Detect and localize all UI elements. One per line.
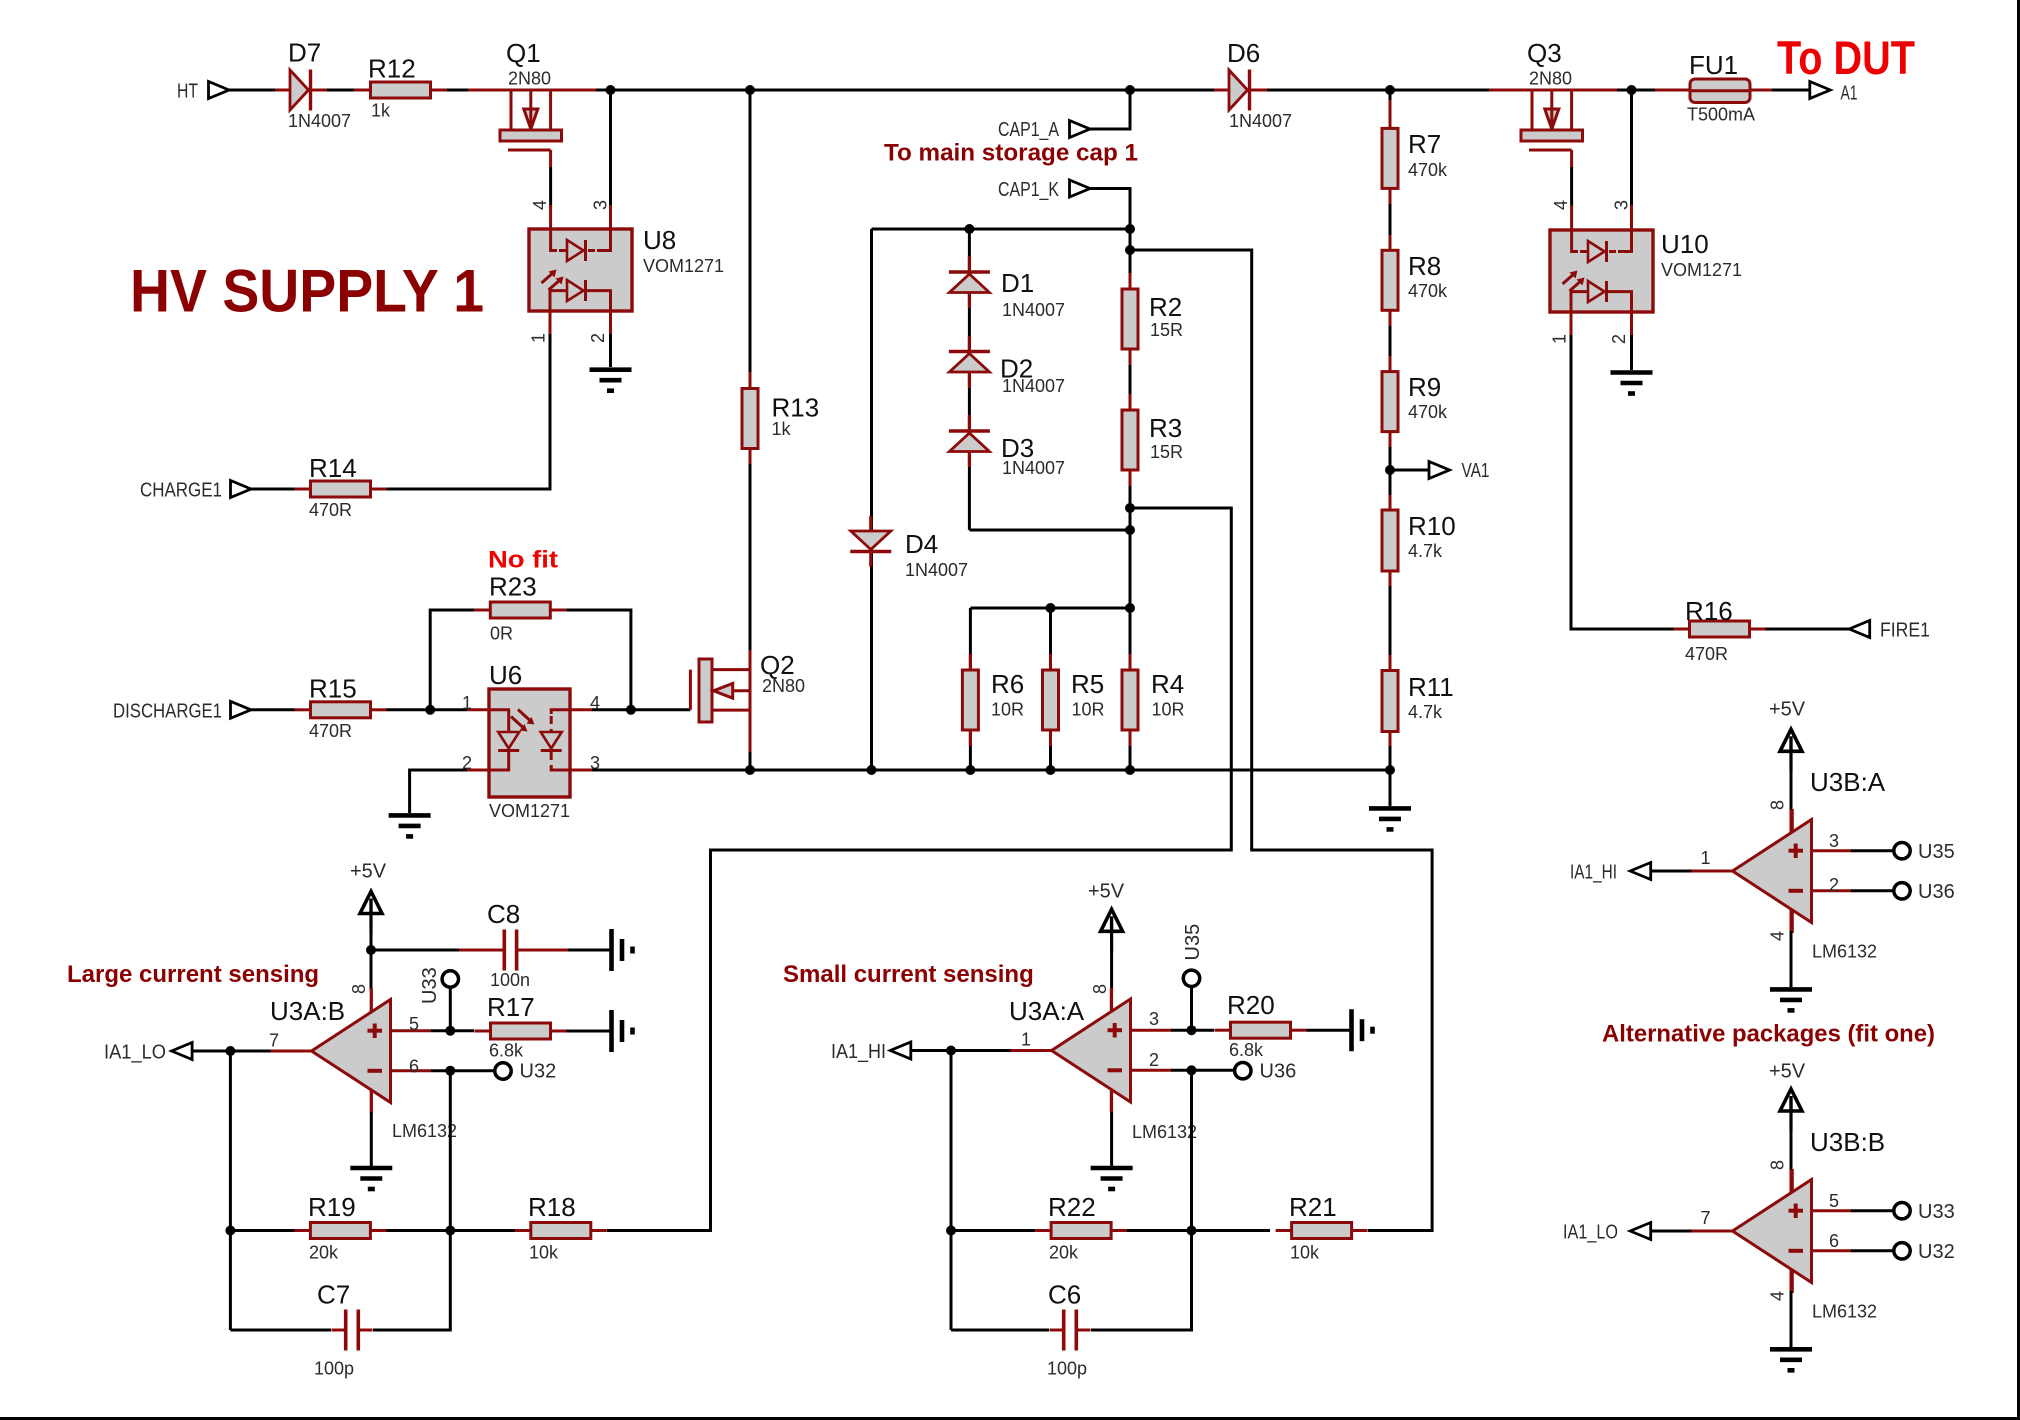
node junction output/feedback bbox=[225, 1046, 235, 1056]
diode D7 1N4007 bbox=[276, 70, 326, 111]
wire CAP1_A to bus bbox=[1090, 90, 1130, 129]
svg-text:IA1_HI: IA1_HI bbox=[831, 1041, 886, 1063]
wire R2/R3 column bbox=[1129, 229, 1132, 608]
svg-text:R10: R10 bbox=[1408, 511, 1456, 541]
svg-text:+5V: +5V bbox=[1769, 699, 1806, 721]
svg-text:1N4007: 1N4007 bbox=[1002, 300, 1065, 320]
wire net-A (R2 top to R21) bbox=[1130, 250, 1432, 1231]
resistor R15 470R bbox=[295, 702, 387, 718]
wire U8 pin 1 to R14 bbox=[549, 311, 552, 334]
svg-text:IA1_LO: IA1_LO bbox=[1563, 1222, 1618, 1244]
ground (divider bottom) bbox=[1369, 808, 1411, 829]
node junction R11/bus bbox=[1385, 765, 1395, 775]
optocoupler U8 VOM1271 bbox=[529, 229, 632, 311]
node junction CAP1_K/top row bbox=[1125, 224, 1135, 234]
node junction bus/CAP1_A bbox=[1125, 85, 1135, 95]
resistor R3 15R bbox=[1122, 394, 1138, 486]
svg-text:1N4007: 1N4007 bbox=[1229, 111, 1292, 131]
resistor R12 1k bbox=[355, 82, 447, 98]
svg-text:D7: D7 bbox=[288, 38, 321, 68]
node junction VA1 tap bbox=[1385, 465, 1395, 475]
node junction R5 top bbox=[1046, 603, 1056, 613]
svg-text:C7: C7 bbox=[317, 1280, 350, 1310]
svg-text:Q3: Q3 bbox=[1527, 38, 1562, 68]
svg-text:470k: 470k bbox=[1408, 160, 1448, 180]
node junction pin5/U33 bbox=[445, 1026, 455, 1036]
optocoupler U6 VOM1271 bbox=[489, 689, 570, 797]
svg-text:R18: R18 bbox=[528, 1192, 576, 1222]
wire U3A:B pin 4 to ground bbox=[370, 1090, 373, 1112]
svg-text:R11: R11 bbox=[1408, 672, 1454, 702]
svg-text:R7: R7 bbox=[1408, 129, 1441, 159]
wire R22 row bbox=[951, 1229, 1035, 1232]
terminal U36 (pin2) bbox=[1235, 1063, 1251, 1079]
node junction pin6/feedback bbox=[445, 1066, 455, 1076]
wire pin6 to U32 terminal bbox=[1851, 1249, 1894, 1252]
svg-text:U33: U33 bbox=[419, 967, 441, 1004]
wire +5V to U3A:B pin 8 bbox=[370, 930, 373, 990]
terminal U32 bbox=[495, 1063, 511, 1079]
wire bus to U10 pin 3 bbox=[1630, 90, 1633, 207]
port DISCHARGE1 bbox=[231, 701, 252, 718]
wire source bus (U6 pin3 row) bbox=[570, 769, 1390, 772]
svg-text:R14: R14 bbox=[309, 453, 357, 483]
svg-text:1N4007: 1N4007 bbox=[905, 560, 968, 580]
svg-text:LM6132: LM6132 bbox=[1812, 1302, 1877, 1322]
diode D4 1N4007 bbox=[850, 517, 891, 567]
wire U33 to pin5 net bbox=[449, 987, 452, 1031]
svg-text:2: 2 bbox=[588, 333, 608, 343]
wire U3B:B pin 4 to ground bbox=[1790, 1269, 1793, 1292]
wire output IA1_HI bbox=[910, 1049, 1011, 1052]
wire output IA1_LO (U3B:B) bbox=[1651, 1230, 1692, 1233]
svg-text:1N4007: 1N4007 bbox=[1002, 458, 1065, 478]
node junction Q2 source/bus bbox=[745, 765, 755, 775]
node junction R5/bus bbox=[1046, 765, 1056, 775]
wire feedback drop (pin6 to R19/R18) bbox=[449, 1071, 452, 1231]
svg-text:R2: R2 bbox=[1149, 292, 1182, 322]
wire R15 to U6 pin 1 bbox=[387, 708, 468, 711]
optocoupler U10 VOM1271 bbox=[1550, 230, 1653, 312]
svg-text:U36: U36 bbox=[1260, 1061, 1297, 1083]
svg-text:To main storage cap 1: To main storage cap 1 bbox=[884, 140, 1138, 167]
wire U35 to pin3 net bbox=[1190, 986, 1193, 1030]
svg-text:15R: 15R bbox=[1150, 442, 1183, 462]
node junction +5V/C8 bbox=[366, 945, 376, 955]
wire bus to U8 pin 3 bbox=[609, 90, 612, 207]
svg-text:C6: C6 bbox=[1048, 1280, 1081, 1310]
svg-text:10R: 10R bbox=[991, 700, 1024, 720]
svg-text:100p: 100p bbox=[1047, 1359, 1087, 1379]
svg-text:20k: 20k bbox=[309, 1243, 339, 1263]
node junction bus/U8-pin3 bbox=[606, 85, 616, 95]
svg-text:3: 3 bbox=[1612, 200, 1632, 210]
wire D4 column bbox=[870, 229, 873, 770]
svg-text:U6: U6 bbox=[489, 660, 522, 690]
node junction R6/bus bbox=[965, 765, 975, 775]
svg-text:VOM1271: VOM1271 bbox=[643, 256, 724, 276]
svg-text:R17: R17 bbox=[487, 992, 535, 1022]
svg-text:1: 1 bbox=[462, 693, 472, 713]
svg-text:D6: D6 bbox=[1227, 38, 1260, 68]
svg-text:No fit: No fit bbox=[488, 547, 558, 574]
svg-text:100p: 100p bbox=[314, 1359, 354, 1379]
wire U10 pin 1 to R16 bbox=[1570, 312, 1573, 335]
wire C8 net bbox=[371, 949, 459, 952]
wire pin3 to U35 terminal bbox=[1851, 849, 1894, 852]
svg-text:R4: R4 bbox=[1151, 669, 1184, 699]
resistor R20 6.8k bbox=[1215, 1022, 1307, 1038]
svg-text:FIRE1: FIRE1 bbox=[1880, 620, 1930, 642]
wire Q1 gate to U8 pin 4 bbox=[549, 167, 552, 207]
node junction bus/R7 bbox=[1385, 85, 1395, 95]
resistor R22 20k bbox=[1035, 1223, 1127, 1239]
wire +5V to U3A:A pin 8 bbox=[1110, 948, 1113, 990]
wire output down to R22/C6 bbox=[950, 1051, 953, 1331]
svg-text:R9: R9 bbox=[1408, 372, 1441, 402]
svg-text:20k: 20k bbox=[1049, 1243, 1079, 1263]
svg-text:CAP1_K: CAP1_K bbox=[998, 179, 1060, 201]
svg-text:U35: U35 bbox=[1918, 841, 1955, 863]
svg-text:U35: U35 bbox=[1182, 924, 1204, 961]
svg-text:R8: R8 bbox=[1408, 251, 1441, 281]
port A1 bbox=[1810, 82, 1831, 99]
svg-text:4: 4 bbox=[1768, 1291, 1788, 1301]
resistor R17 6.8k bbox=[475, 1023, 567, 1039]
transistor Q3 2N80 bbox=[1521, 90, 1583, 167]
node junction R4 top bbox=[1125, 603, 1135, 613]
svg-text:470R: 470R bbox=[1685, 644, 1728, 664]
svg-text:CHARGE1: CHARGE1 bbox=[140, 480, 222, 502]
op-amp U3B:B LM6132 bbox=[1692, 1169, 1853, 1293]
node junction net-B tap bbox=[1125, 503, 1135, 513]
transistor Q1 2N80 bbox=[500, 90, 562, 167]
svg-text:R5: R5 bbox=[1071, 669, 1104, 699]
node junction D4/bus bbox=[867, 765, 877, 775]
svg-text:1N4007: 1N4007 bbox=[1002, 376, 1065, 396]
wire VA1 tap bbox=[1390, 469, 1429, 472]
wire U10 pin 2 to ground bbox=[1630, 312, 1633, 335]
svg-text:2: 2 bbox=[1149, 1050, 1159, 1070]
wire R4 drop bbox=[1129, 608, 1132, 770]
resistor R18 10k bbox=[515, 1223, 607, 1239]
wire HT bus (main +HV rail) bbox=[229, 89, 1810, 92]
svg-text:R3: R3 bbox=[1149, 413, 1182, 443]
wire feedback drop (pin2 to R22/R21) bbox=[1190, 1070, 1193, 1230]
wire pin6 net to U32 bbox=[431, 1069, 495, 1072]
port HT bbox=[209, 82, 230, 99]
resistor R7 470k bbox=[1382, 128, 1398, 188]
svg-text:D4: D4 bbox=[905, 529, 938, 559]
svg-text:8: 8 bbox=[1768, 800, 1788, 810]
node junction R22 left bbox=[946, 1226, 956, 1236]
wire R7-R11 divider column bbox=[1389, 90, 1392, 770]
node junction R22/R21/feedback bbox=[1187, 1226, 1197, 1236]
op-amp U3A:A LM6132 bbox=[1011, 989, 1172, 1113]
svg-text:1N4007: 1N4007 bbox=[288, 111, 351, 131]
svg-text:R15: R15 bbox=[309, 674, 357, 704]
svg-text:6.8k: 6.8k bbox=[489, 1041, 524, 1061]
wire +5V to U3B:A pin 8 bbox=[1790, 768, 1793, 812]
svg-text:4.7k: 4.7k bbox=[1408, 702, 1443, 722]
svg-text:+5V: +5V bbox=[1088, 881, 1125, 903]
svg-text:10k: 10k bbox=[1290, 1243, 1320, 1263]
resistor R21 10k bbox=[1276, 1223, 1368, 1239]
svg-text:1: 1 bbox=[529, 333, 549, 343]
svg-text:R23: R23 bbox=[489, 572, 537, 602]
ground (U3A:A pin 4) bbox=[1091, 1168, 1133, 1189]
wire net-B (R2 bottom to R18) bbox=[607, 508, 1231, 1231]
svg-text:6.8k: 6.8k bbox=[1229, 1040, 1264, 1060]
wire bus to ground (right) bbox=[1389, 770, 1392, 806]
resistor R10 4.7k bbox=[1382, 510, 1398, 571]
svg-text:U32: U32 bbox=[1918, 1241, 1955, 1263]
svg-text:To DUT: To DUT bbox=[1777, 32, 1915, 85]
wire D3 bottom to R2/R3 column bbox=[969, 529, 1130, 532]
svg-text:U8: U8 bbox=[643, 225, 676, 255]
svg-text:8: 8 bbox=[1768, 1160, 1788, 1170]
wire CHARGE1 to R14 bbox=[251, 488, 295, 491]
svg-text:Large current sensing: Large current sensing bbox=[67, 961, 319, 988]
op-amp U3A:B LM6132 bbox=[271, 989, 432, 1113]
svg-text:C8: C8 bbox=[487, 899, 520, 929]
node junction R19 left bbox=[225, 1226, 235, 1236]
ground (U3B:A pin 4) bbox=[1770, 989, 1812, 1010]
svg-text:0R: 0R bbox=[490, 624, 513, 644]
resistor R9 470k bbox=[1382, 372, 1398, 432]
node junction R4/bus bbox=[1125, 765, 1135, 775]
svg-text:8: 8 bbox=[349, 984, 369, 994]
wire +5V to U3B:B pin 8 bbox=[1790, 1128, 1793, 1172]
wire U3A:A pin 4 to ground bbox=[1110, 1090, 1113, 1113]
svg-text:15R: 15R bbox=[1150, 320, 1183, 340]
fuse FU1 T500mA bbox=[1655, 79, 1772, 103]
node junction R19/R18/feedback bbox=[445, 1226, 455, 1236]
terminal U36 (U3B:A pin2) bbox=[1894, 883, 1910, 899]
resistor R8 470k bbox=[1382, 250, 1398, 310]
node junction D1 top bbox=[964, 224, 974, 234]
wire output IA1_LO bbox=[191, 1050, 270, 1053]
svg-text:U36: U36 bbox=[1918, 881, 1955, 903]
svg-text:U3B:B: U3B:B bbox=[1810, 1127, 1885, 1157]
port CAP1_A bbox=[1070, 121, 1091, 138]
ground (U3B:B pin 4) bbox=[1770, 1349, 1812, 1370]
svg-text:VOM1271: VOM1271 bbox=[1661, 260, 1742, 280]
wire C6 row bbox=[951, 1329, 1049, 1332]
svg-text:HT: HT bbox=[177, 81, 198, 103]
wire R23 right leg bbox=[566, 610, 631, 710]
svg-text:+5V: +5V bbox=[1769, 1061, 1806, 1083]
svg-text:6: 6 bbox=[1829, 1231, 1839, 1251]
wire U8 pin 2 to ground bbox=[609, 311, 612, 334]
wire (screen bottom border) bbox=[0, 1417, 2020, 1420]
svg-text:1: 1 bbox=[1701, 848, 1711, 868]
node junction bus/R13 bbox=[745, 85, 755, 95]
resistor R5 10R bbox=[1043, 654, 1059, 746]
op-amp U3B:A LM6132 bbox=[1692, 809, 1853, 933]
svg-text:1: 1 bbox=[1550, 334, 1570, 344]
wire R6 drop bbox=[969, 608, 972, 770]
svg-text:VOM1271: VOM1271 bbox=[489, 801, 570, 821]
svg-text:HV SUPPLY 1: HV SUPPLY 1 bbox=[130, 258, 484, 325]
svg-text:R12: R12 bbox=[368, 54, 416, 84]
wire R13 to Q2 drain column bbox=[749, 449, 752, 465]
resistor R23 0R bbox=[474, 602, 566, 618]
svg-text:5: 5 bbox=[1829, 1191, 1839, 1211]
resistor R13 1k bbox=[742, 389, 758, 449]
terminal U35 (U3B:A pin3) bbox=[1894, 843, 1910, 859]
svg-text:100n: 100n bbox=[490, 970, 530, 990]
svg-text:8: 8 bbox=[1090, 984, 1110, 994]
node junction net-A tap bbox=[1125, 245, 1135, 255]
svg-text:5: 5 bbox=[409, 1014, 419, 1034]
wire Q3 gate to U10 pin 4 bbox=[1570, 167, 1573, 207]
svg-text:A1: A1 bbox=[1841, 83, 1858, 105]
diode D2 1N4007 bbox=[949, 337, 990, 387]
node junction pin2/feedback bbox=[1187, 1065, 1197, 1075]
svg-text:2: 2 bbox=[1609, 334, 1629, 344]
svg-text:2: 2 bbox=[1829, 875, 1839, 895]
svg-text:470k: 470k bbox=[1408, 402, 1448, 422]
svg-text:470R: 470R bbox=[309, 500, 352, 520]
svg-text:U10: U10 bbox=[1661, 229, 1709, 259]
power +5V (U3A:A) bbox=[1101, 909, 1123, 951]
svg-text:4.7k: 4.7k bbox=[1408, 541, 1443, 561]
wire output IA1_HI (U3B:A) bbox=[1651, 870, 1692, 873]
ground (R17) bbox=[612, 1010, 633, 1052]
svg-text:1k: 1k bbox=[772, 419, 792, 439]
wire D1-D3 column bbox=[968, 229, 971, 530]
svg-text:2N80: 2N80 bbox=[1529, 69, 1572, 89]
resistor R4 10R bbox=[1122, 654, 1138, 746]
port CAP1_K bbox=[1070, 180, 1091, 197]
port VA1 bbox=[1429, 462, 1450, 479]
svg-text:R6: R6 bbox=[991, 669, 1024, 699]
svg-text:FU1: FU1 bbox=[1689, 50, 1738, 80]
svg-text:Small current sensing: Small current sensing bbox=[783, 961, 1034, 988]
ground (U10 pin 2) bbox=[1611, 373, 1653, 394]
wire bus to R13 bbox=[749, 90, 752, 374]
wire pin2 net to U36 bbox=[1171, 1069, 1235, 1072]
wire R17 to ground bbox=[567, 1030, 612, 1033]
svg-text:10R: 10R bbox=[1072, 700, 1105, 720]
svg-text:2N80: 2N80 bbox=[762, 676, 805, 696]
port CHARGE1 bbox=[231, 481, 252, 498]
svg-text:R19: R19 bbox=[308, 1192, 356, 1222]
svg-text:U32: U32 bbox=[520, 1061, 557, 1083]
wire CAP1_K down to diode network bbox=[1090, 189, 1130, 230]
wire pin5 to U33 terminal bbox=[1851, 1209, 1894, 1212]
terminal U32 (U3B:B pin6) bbox=[1894, 1243, 1910, 1259]
svg-text:R20: R20 bbox=[1227, 990, 1275, 1020]
node junction R23-right/Q2 gate bbox=[626, 705, 636, 715]
wire R19 row bbox=[230, 1229, 295, 1232]
svg-text:U3A:A: U3A:A bbox=[1009, 996, 1085, 1026]
transistor Q2 2N80 bbox=[690, 659, 751, 722]
wire C7 row bbox=[230, 1329, 331, 1332]
wire pin5 to R17 bbox=[431, 1029, 474, 1032]
svg-text:3: 3 bbox=[591, 200, 611, 210]
wire output down to R19/C7 bbox=[229, 1051, 232, 1330]
svg-text:LM6132: LM6132 bbox=[1812, 942, 1877, 962]
svg-text:2N80: 2N80 bbox=[508, 69, 551, 89]
svg-text:10k: 10k bbox=[529, 1243, 559, 1263]
svg-text:4: 4 bbox=[1551, 200, 1571, 210]
node junction D3-bottom bbox=[1125, 525, 1135, 535]
terminal U35 (pin3) bbox=[1183, 970, 1199, 986]
wire DISCHARGE1 to R15 bbox=[251, 708, 295, 711]
svg-text:1: 1 bbox=[1021, 1030, 1031, 1050]
node junction R23-left/U6 pin1 bbox=[425, 705, 435, 715]
ground (R20) bbox=[1352, 1009, 1373, 1051]
svg-text:7: 7 bbox=[269, 1031, 279, 1051]
svg-text:1k: 1k bbox=[371, 101, 391, 121]
resistor R14 470R bbox=[295, 481, 387, 497]
ground (U8 pin 2) bbox=[590, 370, 632, 391]
svg-text:DISCHARGE1: DISCHARGE1 bbox=[113, 701, 222, 723]
port FIRE1 bbox=[1849, 621, 1870, 638]
svg-text:T500mA: T500mA bbox=[1687, 105, 1755, 125]
capacitor C7 100p bbox=[332, 1310, 373, 1351]
wire pin3 to R20 bbox=[1171, 1029, 1214, 1032]
svg-text:LM6132: LM6132 bbox=[392, 1121, 457, 1141]
svg-text:7: 7 bbox=[1701, 1208, 1711, 1228]
wire R5 drop bbox=[1049, 608, 1052, 770]
resistor R2 15R bbox=[1122, 273, 1138, 365]
svg-text:R22: R22 bbox=[1048, 1192, 1096, 1222]
svg-text:U33: U33 bbox=[1918, 1201, 1955, 1223]
ground (U6 pin 2) bbox=[389, 815, 431, 836]
wire U3B:A pin 4 to ground bbox=[1790, 909, 1793, 932]
capacitor C6 100p bbox=[1050, 1310, 1091, 1351]
wire top net (D4/D1/CAP1_K row) bbox=[872, 228, 1131, 231]
svg-text:4: 4 bbox=[530, 200, 550, 210]
wire pin2 to U36 terminal bbox=[1851, 889, 1894, 892]
wire R23 left leg bbox=[430, 610, 474, 710]
resistor R11 4.7k bbox=[1382, 671, 1398, 732]
svg-text:IA1_LO: IA1_LO bbox=[104, 1042, 166, 1064]
resistor R6 10R bbox=[962, 654, 978, 746]
wire R16 to FIRE1 bbox=[1766, 628, 1850, 631]
wire U6 pin 4 to Q2 gate bbox=[570, 708, 592, 711]
resistor R16 470R bbox=[1674, 621, 1766, 637]
svg-text:LM6132: LM6132 bbox=[1132, 1122, 1197, 1142]
svg-text:470k: 470k bbox=[1408, 281, 1448, 301]
terminal U33 bbox=[442, 971, 458, 987]
svg-text:U3A:B: U3A:B bbox=[270, 996, 345, 1026]
node junction pin3/U35 bbox=[1187, 1025, 1197, 1035]
capacitor C8 100n bbox=[459, 930, 568, 971]
diode D6 1N4007 bbox=[1215, 70, 1265, 111]
node junction bus/U10-pin3 bbox=[1627, 85, 1637, 95]
power +5V (U3B:A) bbox=[1780, 729, 1802, 771]
ground (U3A:B pin 4) bbox=[350, 1168, 392, 1189]
diode D1 1N4007 bbox=[949, 257, 990, 307]
svg-text:3: 3 bbox=[1829, 831, 1839, 851]
svg-text:470R: 470R bbox=[309, 721, 352, 741]
terminal U33 (U3B:B pin5) bbox=[1894, 1203, 1910, 1219]
svg-text:Q1: Q1 bbox=[506, 38, 541, 68]
wire R4/R5/R6 top rail bbox=[970, 607, 1130, 610]
ground (C8) bbox=[612, 929, 633, 971]
wire (screen right border) bbox=[2017, 0, 2020, 1420]
svg-text:R21: R21 bbox=[1289, 1192, 1337, 1222]
diode D3 1N4007 bbox=[949, 416, 990, 466]
svg-text:U3B:A: U3B:A bbox=[1810, 767, 1886, 797]
resistor R19 20k bbox=[294, 1223, 386, 1239]
wire R20 to ground bbox=[1307, 1029, 1352, 1032]
svg-text:IA1_HI: IA1_HI bbox=[1570, 862, 1617, 884]
